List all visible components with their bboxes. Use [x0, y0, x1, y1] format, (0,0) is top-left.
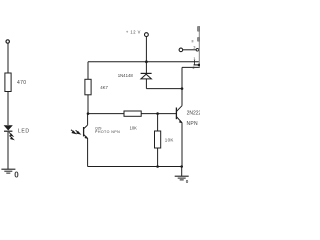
svg-text:470: 470 — [17, 80, 26, 86]
svg-text:1: 1 — [193, 56, 195, 61]
svg-text:NPN: NPN — [187, 121, 199, 127]
svg-text:0: 0 — [14, 171, 19, 180]
svg-text:4K7: 4K7 — [100, 85, 108, 90]
svg-text:10K: 10K — [130, 126, 138, 131]
svg-text:PHOTO NPN: PHOTO NPN — [95, 130, 120, 134]
svg-text:+ 12 V: + 12 V — [126, 30, 141, 35]
svg-text:10K: 10K — [165, 137, 174, 142]
svg-text:3: 3 — [193, 45, 195, 50]
svg-text:1N4148: 1N4148 — [118, 73, 134, 78]
svg-text:2: 2 — [193, 65, 195, 70]
svg-text:2N2222: 2N2222 — [187, 111, 200, 117]
svg-text:0: 0 — [186, 179, 189, 184]
svg-text:LED: LED — [18, 129, 30, 135]
